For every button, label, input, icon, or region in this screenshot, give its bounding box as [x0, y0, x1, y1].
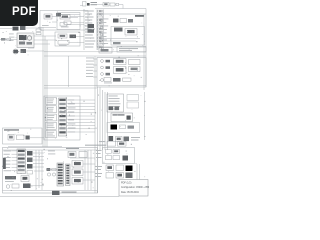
label box	[117, 47, 146, 53]
IC U20	[59, 98, 67, 136]
wire stub	[83, 9, 85, 12]
pin labels left	[4, 151, 18, 172]
row cluster y185	[6, 184, 44, 189]
bottom row in E	[104, 78, 131, 84]
filter FL1 cluster	[103, 3, 123, 9]
pin wires right of U20	[67, 100, 96, 132]
right edge verticals	[144, 14, 146, 140]
box section G outline and label	[3, 128, 43, 144]
connector J4 stack	[46, 98, 57, 138]
wires right of U30	[33, 150, 44, 190]
box section F outline	[44, 96, 80, 140]
connector bar dark	[3, 158, 6, 169]
boxes row y152	[48, 151, 87, 158]
wire left duo	[0, 28, 56, 29]
components in G	[8, 135, 44, 141]
transistor circles in D	[100, 19, 103, 36]
vertical bus left	[43, 30, 47, 147]
IC U31 dark	[57, 163, 64, 186]
components in D2	[100, 28, 140, 45]
inner box D2	[111, 27, 145, 46]
svg-text:Date: 05.05.2004: Date: 05.05.2004	[121, 191, 139, 194]
transistor circles in E	[101, 60, 110, 82]
box section B outline	[57, 13, 80, 30]
box with label strip	[111, 113, 133, 122]
bottom small box and label	[52, 191, 77, 195]
resistor row R21	[36, 29, 44, 35]
noise texture	[2, 12, 145, 193]
IC U7 small boxes	[113, 19, 133, 23]
crystal X1 cluster	[80, 2, 103, 7]
two small boxes right	[127, 95, 139, 109]
small parts left of U13	[0, 38, 17, 41]
components in section C	[58, 34, 84, 46]
PDF badge	[0, 0, 38, 26]
rows inside K	[96, 150, 128, 161]
IC U32 dark	[66, 164, 71, 186]
box section K outline	[103, 148, 135, 164]
wire top bus	[95, 9, 146, 15]
IC U12 blob row	[13, 26, 45, 31]
IC boxes in E	[114, 59, 141, 74]
pin labels right of U20	[68, 100, 76, 133]
component row y138	[109, 136, 141, 142]
pin labels left of E	[86, 58, 97, 78]
box section A outline	[40, 11, 88, 31]
components inside section A	[42, 13, 84, 26]
connector J2 pin rows	[85, 10, 103, 48]
cluster right of U31	[72, 161, 83, 185]
transistor Q3 cluster	[13, 48, 44, 55]
box section C outline	[55, 32, 80, 46]
box section E outline	[97, 58, 146, 88]
svg-text:PDF (1/2): PDF (1/2)	[121, 181, 132, 184]
wire pair	[44, 52, 146, 56]
component column	[27, 151, 33, 174]
label strip above bottom box	[85, 145, 106, 146]
IC U30	[17, 149, 26, 174]
IC U13	[9, 33, 56, 48]
parts row y168	[46, 168, 58, 176]
small box left of label	[99, 48, 112, 54]
vertical wire mid	[68, 56, 70, 87]
cluster y142	[99, 141, 126, 146]
title block frame	[119, 180, 148, 197]
connector J2 pin column rails	[84, 10, 104, 51]
left pin rows in D	[100, 19, 109, 44]
rows below K	[95, 164, 140, 181]
title block text	[121, 181, 150, 194]
pin list J6	[107, 94, 124, 112]
IC U5 blobs	[88, 24, 95, 33]
wires below E	[44, 85, 146, 88]
box section H outline	[3, 148, 98, 194]
dark pins of J6	[109, 107, 120, 111]
row cluster y177	[5, 176, 29, 182]
wires crossing bottom middle	[70, 150, 95, 190]
bottom border lines	[0, 150, 119, 197]
vertical bus center	[95, 57, 108, 194]
label top middle bottombox	[66, 148, 79, 149]
label MAIN	[135, 15, 144, 17]
wire below G	[8, 146, 62, 148]
box section I	[107, 123, 140, 133]
svg-text:Configuration: C5000 + 850: Configuration: C5000 + 850	[121, 186, 149, 189]
box section D outline	[97, 14, 146, 47]
components in section B	[52, 15, 84, 28]
